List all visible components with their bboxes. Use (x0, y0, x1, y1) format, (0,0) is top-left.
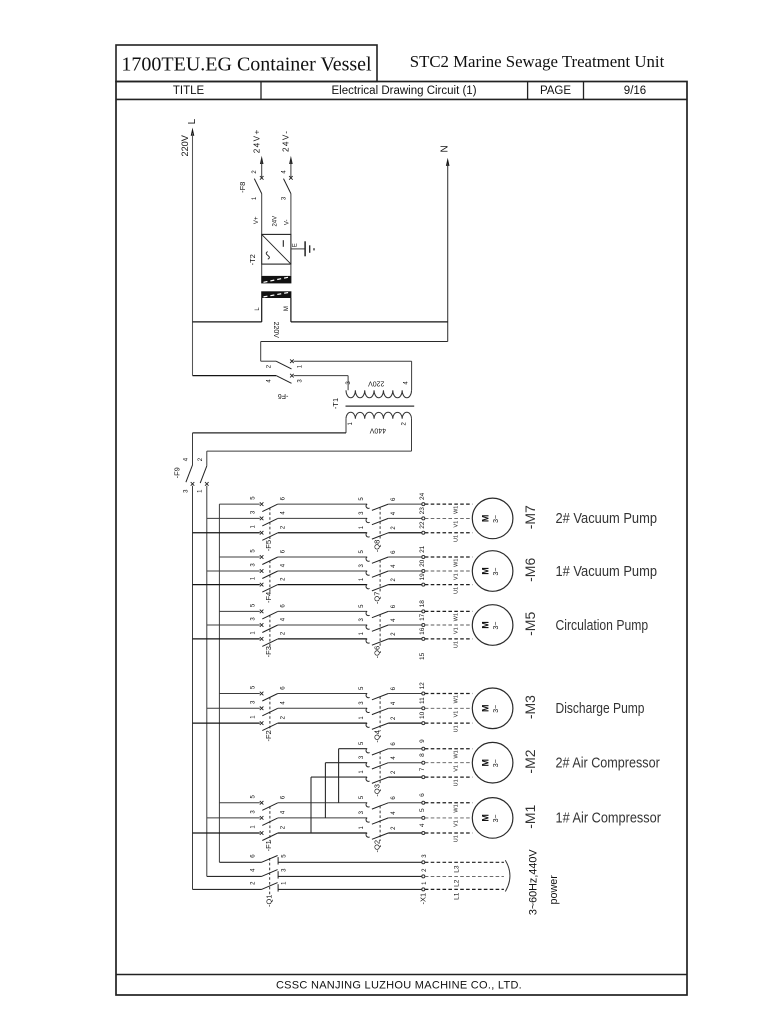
svg-text:L: L (187, 118, 198, 124)
wire L vertical (192, 133, 194, 376)
wire L to T2 input (193, 321, 262, 323)
svg-text:STC2 Marine Sewage Treatment U: STC2 Marine Sewage Treatment Unit (410, 52, 665, 71)
svg-text:21: 21 (419, 545, 426, 553)
motor leads M3 (425, 694, 473, 733)
svg-text:2# Air Compressor: 2# Air Compressor (556, 755, 660, 772)
motor -M2 (472, 742, 538, 783)
svg-text:1# Air Compressor: 1# Air Compressor (556, 810, 662, 827)
svg-text:-X1: -X1 (418, 893, 427, 905)
motor -M3 (472, 688, 538, 729)
wire jog V (324, 763, 326, 818)
svg-text:U1: U1 (453, 535, 459, 542)
svg-text:9: 9 (419, 739, 426, 743)
svg-text:W1: W1 (453, 613, 459, 621)
svg-text:-F8: -F8 (238, 182, 247, 193)
svg-text:5: 5 (419, 808, 426, 812)
svg-text:-Q3: -Q3 (373, 784, 382, 797)
svg-text:3~: 3~ (493, 705, 500, 713)
svg-text:W1: W1 (453, 506, 459, 514)
svg-text:11: 11 (419, 697, 426, 704)
svg-text:20: 20 (419, 559, 426, 567)
svg-text:Discharge Pump: Discharge Pump (556, 700, 645, 717)
svg-text:U1: U1 (453, 835, 459, 842)
terminal circles M7 (419, 492, 426, 534)
svg-text:3~: 3~ (493, 622, 500, 630)
svg-text:6: 6 (419, 793, 426, 797)
motor leads M5 (425, 611, 473, 648)
svg-text:3~: 3~ (493, 759, 500, 767)
wire rail1 (192, 486, 194, 890)
svg-text:W1: W1 (453, 804, 459, 812)
wire rail2 (206, 486, 208, 877)
svg-text:-Q2: -Q2 (373, 840, 382, 853)
motor -M7 (472, 498, 538, 539)
wire jog W (338, 749, 340, 803)
terminal strip X1 (418, 854, 427, 905)
motor leads M7 (425, 504, 473, 542)
contactor -Q3 (359, 741, 422, 796)
node L 220V feeder arrow (180, 118, 198, 156)
svg-text:9/16: 9/16 (624, 85, 646, 97)
svg-text:-F5: -F5 (264, 540, 273, 551)
power brace (505, 860, 510, 891)
wire jog U (310, 777, 312, 833)
wire T1 440V-2 to rail2 (207, 450, 412, 452)
fuse -F4 (193, 549, 287, 603)
svg-text:-M2: -M2 (522, 749, 538, 773)
wire M2 taps from M1 fuse output (339, 748, 367, 750)
svg-text:16: 16 (419, 627, 426, 635)
incoming power dashed lines L1 L2 L3 (425, 862, 504, 900)
main frame (116, 82, 687, 996)
svg-text:V1: V1 (453, 765, 459, 772)
transformer T1 (331, 361, 414, 451)
motor leads M6 (425, 557, 473, 594)
contactor -Q8 (359, 497, 422, 553)
svg-text:17: 17 (419, 613, 426, 621)
fuse -F5 (193, 496, 287, 551)
svg-text:Electrical Drawing Circuit (1): Electrical Drawing Circuit (1) (331, 85, 476, 97)
svg-text:M: M (480, 705, 490, 713)
motor -M5 (472, 605, 538, 646)
svg-text:-M1: -M1 (522, 804, 538, 828)
svg-text:-F6: -F6 (278, 392, 289, 399)
node 24V+ arrow (252, 128, 263, 164)
svg-text:PAGE: PAGE (540, 85, 571, 97)
wire M5 fuse to contactor (278, 610, 367, 612)
svg-text:24: 24 (419, 492, 426, 500)
svg-text:V-: V- (284, 219, 290, 225)
svg-text:-M7: -M7 (522, 505, 538, 529)
svg-text:1700TEU.EG Container Vessel: 1700TEU.EG Container Vessel (121, 54, 372, 76)
fuse -F1 (193, 794, 287, 851)
title block box (116, 45, 377, 82)
svg-text:3~: 3~ (493, 515, 500, 523)
svg-text:E: E (292, 243, 298, 247)
svg-text:-Q8: -Q8 (373, 540, 382, 553)
node N feeder arrow (440, 145, 451, 166)
svg-text:V1: V1 (453, 820, 459, 827)
svg-text:V1: V1 (453, 711, 459, 718)
wire M7 fuse to contactor (278, 503, 367, 505)
svg-text:W1: W1 (453, 750, 459, 758)
svg-text:V1: V1 (453, 573, 459, 580)
terminal circles M3 (419, 682, 426, 725)
svg-text:M: M (480, 759, 490, 767)
svg-text:power: power (548, 875, 560, 905)
node 24V- arrow (282, 130, 293, 164)
wire N down to F6 (261, 341, 448, 343)
contactor -Q2 (359, 795, 422, 852)
svg-text:U1: U1 (453, 587, 459, 594)
svg-text:1# Vacuum Pump: 1# Vacuum Pump (556, 563, 658, 580)
svg-text:M: M (480, 515, 490, 523)
contactor -Q7 (359, 549, 422, 604)
motor -M1 (472, 798, 538, 839)
svg-text:24V-: 24V- (282, 130, 291, 152)
wire T2 to N (291, 321, 448, 323)
svg-text:L1: L1 (454, 892, 461, 900)
svg-text:-M6: -M6 (522, 558, 538, 582)
switch Q1 (193, 854, 422, 907)
wire M1 fuse to contactor (278, 802, 367, 804)
svg-text:18: 18 (419, 600, 426, 608)
svg-text:M: M (480, 567, 490, 575)
svg-text:L3: L3 (454, 865, 461, 873)
svg-text:-Q4: -Q4 (373, 730, 382, 743)
wire M6 fuse to contactor (278, 556, 367, 558)
svg-text:15: 15 (419, 652, 426, 660)
svg-text:220V: 220V (180, 134, 190, 156)
svg-text:24V: 24V (273, 216, 279, 227)
svg-text:-F3: -F3 (264, 646, 273, 657)
svg-text:-F2: -F2 (264, 730, 273, 741)
footer line (116, 974, 687, 976)
svg-text:10: 10 (419, 711, 426, 719)
title row lines (116, 98, 687, 100)
svg-text:7: 7 (419, 767, 426, 771)
svg-text:Circulation Pump: Circulation Pump (556, 617, 649, 634)
label 3~60Hz,440V power (528, 849, 560, 916)
svg-text:3~60Hz,440V: 3~60Hz,440V (528, 849, 540, 916)
svg-text:M: M (480, 621, 490, 629)
svg-text:440V: 440V (369, 426, 386, 433)
svg-text:220V: 220V (272, 322, 279, 339)
svg-text:22: 22 (419, 521, 426, 529)
svg-text:TITLE: TITLE (173, 85, 205, 97)
wire T1 440V-1 to rail1 (193, 432, 347, 434)
terminal circles M2 (419, 739, 426, 779)
svg-text:W1: W1 (453, 559, 459, 567)
terminal circles M6 (419, 545, 426, 586)
svg-text:24V+: 24V+ (252, 128, 261, 153)
svg-text:-F4: -F4 (264, 592, 273, 603)
fuse -F2 (193, 685, 287, 741)
svg-text:-F9: -F9 (172, 467, 181, 478)
svg-text:3~: 3~ (493, 568, 500, 576)
svg-text:4: 4 (419, 823, 426, 827)
ground E (291, 241, 314, 256)
svg-text:1: 1 (252, 196, 258, 200)
svg-text:-M3: -M3 (522, 695, 538, 719)
svg-text:M: M (480, 814, 490, 822)
svg-text:-T2: -T2 (248, 254, 257, 265)
wire N vertical (447, 164, 449, 342)
motor -M6 (472, 551, 538, 592)
svg-text:M: M (284, 306, 290, 311)
svg-text:12: 12 (419, 682, 426, 690)
svg-text:-Q6: -Q6 (373, 646, 382, 659)
svg-text:220V: 220V (368, 379, 385, 386)
svg-text:-Q1: -Q1 (264, 895, 273, 908)
fuse F9 (172, 433, 208, 493)
svg-text:-M5: -M5 (522, 612, 538, 636)
svg-text:23: 23 (419, 507, 426, 515)
wire rail3 (218, 504, 220, 862)
svg-text:V1: V1 (453, 627, 459, 634)
svg-text:V+: V+ (254, 216, 260, 224)
motor leads M2 (425, 749, 473, 787)
power supply T2 (248, 216, 291, 338)
fuse F6 (193, 359, 412, 399)
fuse F8 (238, 162, 293, 235)
contactor -Q4 (359, 686, 422, 743)
svg-text:CSSC NANJING LUZHOU MACHINE CO: CSSC NANJING LUZHOU MACHINE CO., LTD. (276, 980, 522, 992)
wire M3 fuse to contactor (278, 693, 367, 695)
svg-text:2# Vacuum Pump: 2# Vacuum Pump (556, 510, 658, 527)
fuse -F3 (193, 603, 287, 657)
motor leads M1 (425, 803, 473, 842)
svg-text:U1: U1 (453, 641, 459, 648)
terminal circles M5 (419, 600, 426, 641)
svg-text:N: N (440, 145, 451, 152)
svg-text:U1: U1 (453, 725, 459, 732)
svg-text:-Q7: -Q7 (373, 592, 382, 605)
svg-text:W1: W1 (453, 695, 459, 703)
svg-text:19: 19 (419, 573, 426, 581)
contactor -Q6 (359, 604, 422, 658)
svg-text:U1: U1 (453, 779, 459, 786)
svg-text:-F1: -F1 (264, 840, 273, 851)
terminal circles M1 (419, 793, 426, 835)
svg-text:L2: L2 (454, 879, 461, 887)
svg-text:V1: V1 (453, 521, 459, 528)
svg-text:-T1: -T1 (331, 398, 340, 409)
svg-text:8: 8 (419, 753, 426, 757)
svg-text:3~: 3~ (493, 814, 500, 822)
